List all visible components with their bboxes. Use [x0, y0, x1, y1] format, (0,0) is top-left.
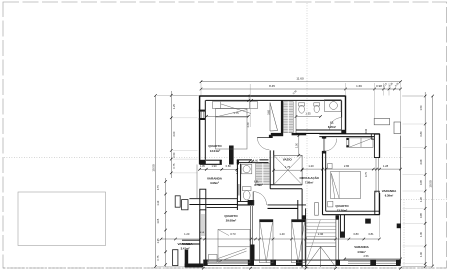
- svg-text:1.40: 1.40: [279, 232, 285, 236]
- svg-text:29.08m²: 29.08m²: [226, 218, 236, 222]
- svg-text:6.20m²: 6.20m²: [328, 125, 336, 129]
- svg-text:1.10: 1.10: [157, 200, 160, 205]
- svg-text:I.S.: I.S.: [330, 121, 335, 125]
- svg-text:VARANDA: VARANDA: [354, 245, 369, 249]
- svg-text:1.50: 1.50: [296, 142, 299, 147]
- svg-text:0.75: 0.75: [173, 163, 176, 168]
- svg-text:3.73: 3.73: [230, 232, 236, 236]
- svg-text:I.S.: I.S.: [254, 179, 259, 183]
- svg-text:4.59m²: 4.59m²: [357, 250, 366, 254]
- svg-text:0.50: 0.50: [173, 152, 176, 157]
- svg-text:1.20: 1.20: [308, 164, 314, 168]
- svg-text:0.75: 0.75: [157, 255, 160, 260]
- svg-text:QUARTO: QUARTO: [208, 144, 222, 148]
- svg-text:1.25: 1.25: [157, 238, 160, 243]
- svg-text:10.50: 10.50: [151, 164, 155, 172]
- svg-text:8.45: 8.45: [269, 84, 275, 88]
- svg-text:VARANDA: VARANDA: [382, 189, 397, 193]
- svg-text:VARANDA: VARANDA: [207, 176, 223, 180]
- svg-text:2.86: 2.86: [344, 164, 350, 168]
- svg-text:2.96: 2.96: [318, 232, 324, 236]
- svg-text:4.75: 4.75: [365, 171, 368, 176]
- svg-text:13.04m²: 13.04m²: [210, 149, 220, 153]
- svg-text:1.05: 1.05: [200, 165, 205, 168]
- svg-text:13.26m²: 13.26m²: [337, 209, 347, 213]
- svg-text:1.30: 1.30: [419, 231, 423, 237]
- svg-text:QUARTO: QUARTO: [335, 204, 349, 208]
- svg-text:1.66: 1.66: [356, 84, 362, 88]
- svg-text:7.86m²: 7.86m²: [305, 180, 313, 184]
- svg-text:11.60: 11.60: [296, 77, 304, 81]
- svg-text:3.78m²: 3.78m²: [254, 183, 263, 187]
- svg-text:1.28: 1.28: [383, 164, 389, 168]
- svg-text:1.05: 1.05: [419, 196, 423, 202]
- svg-text:0.98: 0.98: [376, 84, 382, 88]
- svg-text:1.50: 1.50: [419, 105, 423, 111]
- svg-text:0.81: 0.81: [368, 232, 374, 236]
- svg-text:1.60: 1.60: [253, 160, 258, 163]
- svg-text:2.56: 2.56: [363, 254, 369, 258]
- svg-text:2.08: 2.08: [419, 159, 423, 165]
- svg-text:2.00: 2.00: [173, 131, 176, 136]
- svg-text:2.40: 2.40: [247, 122, 250, 127]
- svg-text:6.39m²: 6.39m²: [385, 193, 394, 197]
- svg-text:VARANDA: VARANDA: [177, 242, 193, 246]
- svg-text:0.80: 0.80: [226, 164, 232, 168]
- svg-text:0.90: 0.90: [365, 128, 368, 133]
- svg-text:0.95: 0.95: [419, 179, 423, 185]
- svg-text:1.00: 1.00: [419, 251, 423, 257]
- svg-text:QUARTO: QUARTO: [224, 214, 238, 218]
- svg-text:CIRCULAÇÃO: CIRCULAÇÃO: [299, 175, 319, 180]
- svg-text:VAZIO: VAZIO: [283, 157, 293, 161]
- svg-text:1.25: 1.25: [173, 103, 176, 108]
- svg-text:0.85: 0.85: [419, 212, 423, 218]
- svg-text:0.80: 0.80: [353, 232, 359, 236]
- svg-text:1.05: 1.05: [157, 218, 160, 223]
- svg-text:1.20: 1.20: [184, 232, 190, 236]
- svg-text:0.80: 0.80: [419, 131, 423, 137]
- svg-text:10.50: 10.50: [428, 180, 432, 188]
- svg-text:0.75: 0.75: [157, 185, 160, 190]
- svg-text:3.96m²: 3.96m²: [210, 181, 219, 185]
- svg-text:1.35: 1.35: [305, 111, 311, 115]
- svg-text:3.41m²: 3.41m²: [181, 246, 190, 250]
